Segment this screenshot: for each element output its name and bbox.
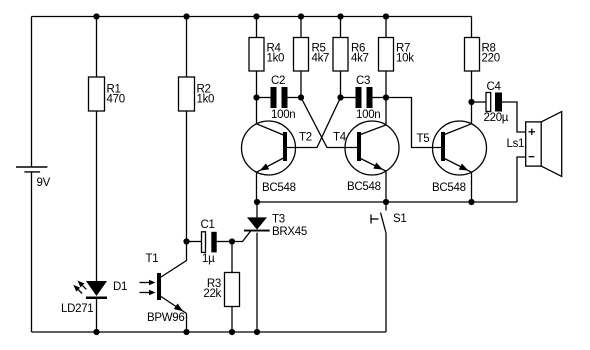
resistor R4 1k0 [249, 38, 284, 72]
svg-text:T4: T4 [333, 132, 347, 144]
node top rail R2 [183, 13, 189, 19]
node ground rail D1 [93, 329, 99, 335]
wire C4 left lead [472, 101, 487, 103]
wire R6 bottom lead [340, 71, 342, 98]
svg-text:BPW96: BPW96 [147, 312, 185, 324]
wire middle emitter rail [257, 201, 517, 203]
node middle rail T5 [468, 199, 474, 205]
svg-text:220: 220 [482, 53, 500, 65]
svg-text:1k0: 1k0 [197, 94, 215, 106]
wire C4 to speaker plus [502, 102, 526, 132]
node C2 right / R5 [298, 94, 304, 100]
wire T4 emitter vertical [385, 171, 387, 202]
wire R4 to C2 node [256, 71, 258, 98]
node R2 C1 T1 [183, 238, 189, 244]
wire speaker minus to middle rail [517, 157, 526, 202]
capacitor C3 100n [356, 75, 381, 121]
wire left battery branch lower [31, 172, 33, 332]
node middle rail T4 S1 [383, 199, 389, 205]
svg-text:10k: 10k [396, 53, 414, 65]
transistor T2 BC548 [242, 121, 312, 194]
node C3 right / R7 [383, 94, 389, 100]
svg-text:4k7: 4k7 [312, 53, 330, 65]
resistor R2 1k0 [179, 77, 215, 111]
wire R6 top lead [340, 17, 342, 38]
loudspeaker Ls1 [507, 112, 562, 177]
wire R5 top lead [300, 17, 302, 38]
svg-text:T3: T3 [272, 214, 285, 226]
svg-text:BC548: BC548 [432, 182, 466, 194]
wire T1 emitter to ground [186, 314, 188, 333]
wire R1 to D1 [96, 111, 98, 281]
svg-text:BRX45: BRX45 [272, 226, 307, 238]
resistor R3 22k [203, 273, 239, 307]
wire R1 top lead [96, 17, 98, 78]
LED D1 LD271 [61, 281, 127, 316]
wire top rail right corner to R8 [471, 17, 473, 38]
wire top supply rail [32, 16, 472, 18]
node top rail R4 [253, 13, 259, 19]
node C2 left / T2 collector [253, 94, 259, 100]
wire T1 collector [161, 242, 187, 278]
svg-text:C4: C4 [487, 81, 502, 93]
wire D1 to ground rail [96, 299, 98, 332]
wire C1 right lead [217, 241, 232, 243]
wire R7 top lead [385, 17, 387, 38]
node ground rail T3 [254, 329, 260, 335]
svg-text:C2: C2 [271, 75, 285, 87]
phototransistor T1 BPW96 [140, 253, 187, 324]
node middle rail T3 anode [254, 199, 260, 205]
node top rail R5 [298, 13, 304, 19]
node top rail R1 [93, 13, 99, 19]
battery BT 9V [16, 167, 51, 189]
svg-text:1µ: 1µ [202, 253, 215, 265]
svg-text:BC548: BC548 [262, 182, 296, 194]
thyristor T3 BRX45 [244, 214, 307, 239]
svg-text:T2: T2 [299, 132, 312, 144]
capacitor C1 1u [201, 219, 217, 265]
svg-text:4k7: 4k7 [351, 53, 369, 65]
svg-text:LD271: LD271 [61, 303, 93, 315]
wire C2 left lead [257, 97, 271, 99]
transistor T4 BC548 [333, 121, 399, 193]
wire left battery branch upper [31, 17, 33, 168]
svg-text:BC548: BC548 [347, 181, 381, 193]
wire cross coupling C2 to T4 base [301, 98, 357, 148]
wire cross coupling C3 to T2 base [287, 98, 341, 148]
wire T3 anode lead [256, 202, 258, 218]
wire T2 emitter vertical [256, 172, 258, 202]
wire R5 bottom lead [300, 71, 302, 98]
svg-text:T1: T1 [146, 253, 159, 265]
svg-text:470: 470 [107, 94, 125, 106]
svg-text:9V: 9V [37, 177, 51, 189]
wire T2 collector vertical [256, 98, 258, 124]
svg-text:100n: 100n [356, 109, 380, 121]
svg-text:S1: S1 [393, 213, 406, 225]
wire T3 gate [232, 231, 251, 241]
wire R2 to C1 node [186, 111, 188, 242]
wire C1 left lead [187, 241, 202, 243]
wire C3 right lead [373, 97, 387, 99]
wire R3 to ground [231, 307, 233, 333]
node top rail R6 [337, 13, 343, 19]
wire R2 top lead [186, 17, 188, 78]
wire R7 to T4 collector [385, 71, 387, 125]
wire R3 top lead [231, 242, 233, 273]
resistor R1 470 [89, 77, 125, 111]
transistor T5 BC548 [417, 121, 487, 194]
capacitor C4 220u [484, 81, 509, 124]
svg-text:T5: T5 [417, 133, 430, 145]
svg-text:D1: D1 [113, 281, 127, 293]
node ground rail R3 [229, 329, 235, 335]
wire T5 base link [386, 98, 441, 148]
wire R8 to T5 collector [471, 71, 473, 124]
svg-text:1k0: 1k0 [267, 53, 285, 65]
wire R4 top lead [256, 17, 258, 38]
node top rail R7 [383, 13, 389, 19]
wire C2 right lead [288, 97, 302, 99]
node ground rail T1 [183, 329, 189, 335]
switch S1 [371, 202, 406, 233]
resistor R7 10k [379, 38, 415, 72]
wire C3 left lead [341, 97, 356, 99]
node C1 R3 T3gate [229, 238, 235, 244]
resistor R6 4k7 [333, 38, 369, 72]
svg-text:220µ: 220µ [484, 112, 509, 124]
svg-text:Ls1: Ls1 [507, 138, 525, 150]
node C4 branch [468, 99, 474, 105]
svg-text:22k: 22k [203, 288, 221, 300]
svg-text:C3: C3 [356, 75, 370, 87]
capacitor C2 100n [271, 75, 296, 121]
svg-text:100n: 100n [271, 109, 295, 121]
svg-text:C1: C1 [201, 219, 215, 231]
wire T5 emitter vertical [471, 172, 473, 202]
wire T3 cathode to ground [256, 233, 258, 332]
wire bottom ground rail [32, 331, 387, 333]
resistor R8 220 [465, 38, 500, 72]
resistor R5 4k7 [294, 38, 330, 72]
wire S1 to ground rail [385, 233, 387, 332]
node C3 left / R6 [337, 94, 343, 100]
